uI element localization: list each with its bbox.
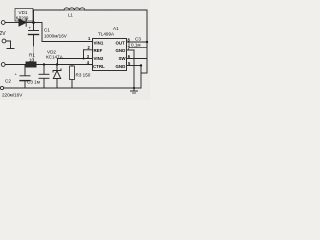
svg-text:L1: L1	[68, 13, 73, 18]
svg-text:КД209: КД209	[16, 16, 29, 21]
svg-text:VD1: VD1	[19, 10, 28, 15]
svg-text:VIN2: VIN2	[94, 56, 104, 61]
svg-text:C2: C2	[5, 79, 11, 84]
svg-text:GND: GND	[116, 48, 126, 53]
svg-text:A1: A1	[113, 26, 119, 31]
svg-text:SW: SW	[119, 56, 127, 61]
svg-text:1000м/16V: 1000м/16V	[44, 34, 68, 39]
svg-text:C1: C1	[44, 28, 50, 33]
svg-text:TL499A: TL499A	[98, 31, 115, 36]
svg-text:КС147А: КС147А	[46, 54, 64, 59]
svg-text:2V: 2V	[0, 31, 6, 37]
svg-text:10: 10	[29, 58, 35, 63]
svg-text:GND: GND	[116, 64, 126, 69]
svg-text:C3 1м: C3 1м	[27, 80, 40, 85]
svg-text:C3: C3	[135, 37, 141, 42]
svg-text:CTRL: CTRL	[93, 64, 105, 69]
svg-text:0,1м: 0,1м	[131, 43, 141, 48]
svg-text:220м/16V: 220м/16V	[2, 92, 23, 97]
svg-text:OUT: OUT	[116, 41, 126, 46]
svg-text:R3 150: R3 150	[76, 73, 91, 78]
svg-text:REF: REF	[94, 48, 103, 53]
svg-text:VIN1: VIN1	[94, 41, 104, 46]
